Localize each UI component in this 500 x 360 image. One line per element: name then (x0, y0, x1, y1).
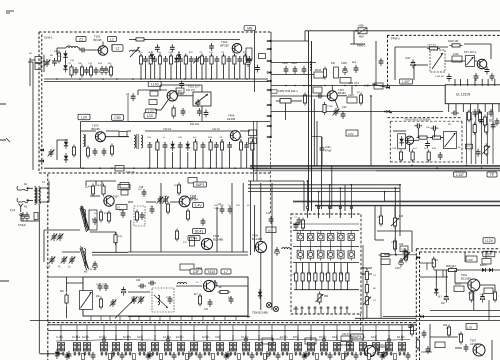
ic cell row1 c5 (338, 231, 344, 243)
capacitor C121 (178, 56, 183, 79)
diode D19 (170, 141, 174, 168)
resistor R221 (60, 291, 68, 306)
terminal arrow (271,49) (267, 47, 272, 50)
ic cell row2 c2 (307, 249, 313, 261)
dashed box PPW-1 left (387, 35, 389, 88)
svg-text:L1: L1 (110, 37, 114, 41)
rect F104 (452, 51, 477, 62)
switch lower contacts S25 (373, 353, 379, 355)
switch drop x246 (245, 325, 247, 341)
resistor R101 (54, 51, 61, 64)
switch drop x272 (271, 325, 273, 341)
arrester rect (34, 213, 38, 220)
value label row2 x210.6 (208, 137, 213, 139)
bottom fringe cap x220 (224, 352, 229, 360)
value label row1 x141 (139, 52, 144, 54)
IC bottom pin x470.6 (470, 104, 472, 112)
left mark y281 (0, 280, 9, 282)
trimmer block dec (444, 132, 457, 149)
label T504 (470, 339, 478, 346)
rect 9P4 (149, 100, 157, 105)
value label osc168 (166, 297, 170, 299)
switch lower contacts S18 (282, 353, 288, 355)
label 2.2V rect (346, 130, 358, 136)
resistor R122 (86, 146, 89, 159)
capacitor C153 (490, 73, 495, 81)
vertical x253.5 (253, 121, 255, 181)
switch S11 (190, 335, 197, 356)
switch drop x350 (349, 325, 351, 341)
rect L28a (249, 130, 257, 136)
wire x367 stubs (366, 268, 368, 318)
capacitor C160 (451, 111, 459, 116)
svg-text:100µ: 100µ (214, 208, 220, 210)
switch drop x207 (206, 325, 208, 341)
switch S4 (99, 335, 108, 356)
capacitor C190 (266, 213, 273, 224)
wire bus x271 (270, 32, 272, 138)
value label dec450 (448, 124, 452, 126)
switch drop x311 (310, 325, 312, 341)
svg-text:AF195: AF195 (227, 117, 236, 121)
switch lower contacts S15 (243, 353, 249, 355)
left mark y140 (0, 138, 10, 142)
wire y131 row2 (145, 130, 250, 132)
wire y201 (293, 200, 500, 202)
label decoder type (404, 120, 431, 122)
resistor R202 (393, 239, 404, 252)
wire am rf (44, 181, 116, 262)
resistor R136 (194, 139, 197, 168)
resistor R215 (410, 324, 413, 337)
value label row2 x165 (163, 137, 166, 139)
varcap C234 (138, 296, 145, 304)
bottom fringe res x363 (368, 354, 371, 360)
wire y188.2 (248, 187, 400, 189)
capacitor C173 (93, 217, 98, 225)
resistor rect R151 (331, 62, 339, 78)
rect bottom mid 1 (262, 338, 273, 344)
bottom fringe res x128 (133, 354, 136, 360)
junction dot (180,168) (179, 167, 181, 169)
wire y318 (30, 318, 416, 320)
switch drop x298 (297, 325, 299, 341)
ic resistor r5 (320, 263, 323, 290)
svg-text:BC148B: BC148B (252, 237, 262, 241)
switch drop x363 (362, 325, 364, 341)
junction dot (103,79) (102, 78, 104, 80)
capacitor C145 (282, 62, 288, 74)
svg-text:BF195: BF195 (94, 38, 103, 42)
label T409b (252, 234, 262, 242)
capacitor C137 (201, 142, 206, 168)
right col cap d (491, 122, 496, 130)
wire bottom left y353.8 (39, 353, 62, 355)
resistor R173 (107, 211, 110, 224)
resistor R212 (446, 266, 459, 272)
terminal arrow (271,126) (267, 124, 272, 127)
capacitor C161 (473, 109, 482, 117)
resistor R122 (200, 54, 203, 80)
junction dot (112,168) (111, 167, 113, 169)
resistor R119 (184, 54, 187, 80)
value label aud410 (408, 327, 411, 329)
value label aud452 (450, 267, 454, 269)
switch S13 (215, 335, 224, 356)
svg-text:10µ: 10µ (441, 303, 446, 305)
bottom fringe res x104 (109, 354, 112, 360)
capacitor C200 (403, 248, 408, 256)
ferrite rod hatch upper (80, 206, 89, 232)
value label am106-214 (104, 213, 109, 215)
elco C211 (480, 294, 484, 303)
capacitor C185 (201, 218, 206, 226)
rect F102 (115, 166, 135, 175)
bottom fringe cap x324 (328, 352, 333, 360)
audio bottom components (416, 330, 432, 354)
mixer wires extra (128, 95, 193, 122)
switch lower contacts S8 (152, 353, 158, 355)
wire y39.4 (129, 38, 240, 40)
svg-text:R2P: R2P (485, 252, 492, 256)
corner x400 (399, 185, 401, 236)
svg-text:C2m: C2m (215, 336, 220, 339)
capacitor C118 (163, 56, 168, 79)
label L4 (42, 181, 45, 184)
wire y74.5 (271, 74, 314, 76)
value label row2 x180.2 (178, 137, 183, 139)
label T107 (113, 196, 127, 210)
IC UL1231N body (445, 85, 500, 104)
switch lower contacts S7 (139, 353, 145, 355)
diode D105 (64, 139, 68, 149)
ic pin drop 307 (306, 181, 308, 206)
resistor R174 (89, 210, 125, 230)
resistor R200 (379, 214, 382, 227)
value label row1 x191.2 (189, 52, 194, 54)
capacitor C149 (352, 61, 358, 73)
wire x33 antenna (28, 62, 33, 170)
ic cell row2 c1 (297, 249, 303, 261)
switch lower contacts S10 (178, 353, 184, 355)
svg-text:7SH-91-403 E 92-20(92)4: 7SH-91-403 E 92-20(92)4 (404, 120, 431, 122)
value label aud393 (391, 242, 395, 244)
value label l70 (68, 63, 72, 65)
resistor R230 (194, 294, 202, 307)
diode D106 (64, 153, 68, 163)
value label dec468 (466, 146, 471, 148)
svg-text:BF195: BF195 (221, 43, 230, 47)
switch S2 (72, 335, 81, 356)
right col cap b (479, 117, 484, 125)
switch S5 (112, 335, 119, 356)
input terminal 1 (40, 148, 44, 151)
filter rect MF10 (314, 69, 324, 78)
oscillator block (193, 85, 211, 121)
label box L103 (148, 82, 161, 87)
resistor R182 (186, 209, 189, 222)
capacitor C162 (470, 109, 493, 122)
svg-text:4700µF: 4700µF (18, 225, 26, 227)
svg-text:T409: T409 (252, 234, 259, 238)
switch S16 (255, 335, 262, 356)
svg-text:UL 1231N: UL 1231N (456, 93, 471, 97)
terminal arrow (271,81) (267, 79, 272, 82)
coil L45 (178, 283, 187, 285)
resistor R123 (110, 144, 113, 157)
wire stage1 (57, 42, 112, 56)
rect C3F (190, 269, 202, 274)
diag link osc (115, 287, 134, 319)
varcap C174 (51, 233, 58, 241)
switch pin label x116 (112, 344, 114, 352)
resistor R164 (427, 150, 430, 163)
diode D211 (489, 268, 493, 272)
capacitor C111 (170, 44, 175, 52)
resistor chain R241 (365, 282, 376, 295)
wire x371 drop (370, 95, 372, 165)
value label l90 (88, 63, 93, 65)
labels mid band (214, 205, 250, 210)
value label ic310-275 (309, 274, 312, 276)
switch drop x389 (388, 325, 390, 341)
capacitor C122 (181, 108, 186, 116)
antenna input network (29, 53, 50, 86)
rect SUP1 (194, 182, 207, 187)
svg-text:145V: 145V (364, 85, 370, 88)
AM input hook 1 (17, 186, 28, 191)
transistor T107 (104, 196, 114, 206)
capacitor C112 (209, 43, 214, 51)
resistor R124 (210, 54, 213, 80)
tuner block KSY dashed (430, 50, 445, 72)
label T408 BF194 (190, 194, 198, 201)
value label am230-206 (228, 205, 231, 207)
IC top pin x475 (474, 79, 476, 86)
section dash x360.5 (360, 314, 362, 332)
label PW6-2 (357, 44, 366, 48)
wire y205 (315, 204, 500, 206)
rect audio aux (435, 342, 445, 348)
ic resistor r1 (295, 263, 298, 290)
svg-text:BA147: BA147 (480, 264, 488, 267)
terminal arrow (271,61) (267, 59, 272, 62)
resistor R154 (357, 92, 363, 106)
rail emphasis y201 (293, 201, 500, 203)
AM terminal dot 2 (24, 199, 29, 208)
ic pin drop 340.3 (339, 188, 341, 209)
value label am96-214 (94, 213, 97, 215)
bus y330.6 (48, 330, 416, 332)
trimmer C177 (58, 256, 67, 269)
wire y181 (248, 181, 304, 211)
capacitor C163 (414, 123, 422, 128)
svg-text:42-Om: 42-Om (82, 336, 89, 339)
junction dot (345,85.5) (344, 85, 346, 87)
rect L40 (193, 203, 204, 208)
svg-text:R2 10n: R2 10n (397, 336, 405, 339)
bottom fringe res x311 (316, 354, 319, 360)
wire y171 (376, 170, 500, 172)
entry arrow audio (416, 256, 421, 259)
rail x331.8 (331, 166, 333, 209)
resistor R150 (323, 67, 326, 80)
capacitor C183 (218, 204, 224, 214)
junction dot (133,79) (132, 78, 134, 80)
value label l80 (78, 63, 82, 65)
ic bottom wire (294, 289, 359, 291)
svg-text:AF194: AF194 (470, 342, 478, 346)
switch S8 (151, 335, 158, 356)
dashed enclosure FM tuner top edge (39, 31, 272, 33)
label 4700 (18, 225, 26, 227)
svg-text:R40: R40 (399, 216, 404, 218)
value label aud482 (480, 294, 485, 296)
capacitor C231 (148, 281, 156, 286)
ic cell row2 c3 (318, 249, 324, 261)
IC bottom pin x499 (498, 104, 500, 112)
value label osc198 (196, 282, 199, 284)
value label row2 x252.4 (250, 137, 254, 139)
bus wire y168 (44, 167, 268, 169)
value label osc133 (131, 297, 135, 299)
wire y184.8 (248, 184, 400, 186)
bottom fringe cap x298 (302, 352, 307, 360)
bottom fringe res x389 (394, 354, 397, 360)
value label ic298-251 (297, 250, 300, 252)
terminal arrow (271,41) (267, 39, 272, 42)
svg-text:C10? 4/2: C10? 4/2 (427, 45, 437, 47)
switch drop x376 (375, 325, 377, 341)
terminal arrow (271,137) (267, 135, 272, 138)
trimmer R201 (391, 216, 404, 229)
resistor R131 (156, 139, 159, 168)
capacitor C120 (126, 93, 136, 101)
label F105 TCM (278, 89, 298, 93)
ic resistor r9 (346, 263, 349, 290)
svg-text:F40 10?: F40 10? (186, 89, 195, 92)
svg-text:SC41: SC41 (195, 229, 204, 233)
switch pin label x233 (229, 344, 231, 352)
bottom fringe cap x272 (276, 352, 281, 360)
resistor R120 (72, 145, 75, 158)
resistor R160 (467, 110, 470, 123)
wire y30.8 top right (305, 31, 500, 41)
label T508 (252, 312, 268, 315)
resistor R105 (109, 65, 112, 78)
switch S25 (371, 335, 380, 356)
resistor R104 (89, 65, 92, 78)
capacitor C230 (136, 280, 146, 288)
value label osc230 (228, 297, 232, 299)
value label am100-186 (98, 185, 103, 187)
svg-text:C42 47: C42 47 (342, 334, 350, 336)
ic resistor r2 (301, 263, 304, 290)
svg-text:C40: C40 (342, 106, 347, 109)
svg-text:40m: 40m (332, 336, 337, 339)
diode D210 (480, 264, 488, 272)
capacitor C130 (147, 142, 152, 168)
capacitor C134 (247, 56, 252, 79)
ic internal wires (293, 224, 359, 263)
svg-text:MW: MW (359, 35, 364, 39)
switch drop x285 (284, 325, 286, 341)
capacitor C150 (447, 74, 452, 82)
rect S101 (374, 83, 383, 89)
switch drop x337 (336, 325, 338, 341)
rail x314.3 (313, 99, 315, 166)
svg-text:T508 BC148B: T508 BC148B (252, 312, 268, 315)
slider link line (56, 338, 410, 342)
rect R211 (482, 259, 491, 265)
dashed box decoder bottom (390, 161, 462, 163)
dashed box PPW-1 top (387, 34, 500, 36)
value label aud436 (434, 260, 439, 262)
capacitor C110 (155, 44, 160, 52)
wire y41 (271, 40, 309, 42)
bottom left diode (47, 349, 59, 359)
value label row2 x195.4 (193, 137, 197, 139)
connector label MB (244, 26, 256, 31)
switch drop x142 (141, 325, 143, 341)
rect bottom mid 2 (305, 338, 316, 344)
capacitor C143 (244, 142, 249, 168)
wire row2 (57, 131, 131, 160)
varcap C175 (57, 233, 64, 241)
elco C107 (104, 66, 108, 75)
elco C149b (405, 58, 445, 78)
svg-text:C50: C50 (114, 116, 120, 120)
ic pin nodes (307, 180, 353, 192)
svg-text:TP: TP (490, 173, 495, 177)
IC top pin x494.8 (494, 79, 496, 86)
label C10 1n4 (163, 123, 220, 131)
svg-text:R49: R49 (443, 325, 448, 327)
junction dot (160,79) (159, 78, 161, 80)
value label row2 x241 (239, 137, 244, 139)
rail emphasis x308.6 (308, 31, 310, 211)
switch lower contacts S9 (165, 353, 171, 355)
junction dot (211,79) (210, 78, 212, 80)
rect SUP4 (351, 334, 364, 339)
value label am176-186 (174, 185, 178, 187)
value label ic342-275 (341, 274, 344, 276)
input terminal 2 (40, 159, 44, 162)
wire ps (375, 206, 412, 252)
label box C50 (112, 115, 124, 121)
label T501 BC158A (461, 273, 471, 280)
transistor T105 (230, 131, 240, 141)
svg-text:MB: MB (247, 26, 253, 30)
bottom small caps (67, 351, 387, 359)
junction dot (304,85.5) (303, 85, 305, 87)
switch S21 (319, 335, 328, 356)
bottom fringe res x233 (238, 354, 241, 360)
dashed filter box F (134, 206, 145, 226)
ferrite rod hatch lower (80, 247, 89, 270)
transistor T504 (473, 344, 485, 356)
capacitor C172 (118, 185, 130, 190)
diag wire pw1 (372, 84, 390, 88)
value label dec434 (432, 148, 437, 150)
capacitor C237 (229, 296, 234, 304)
value label dec394 (392, 148, 397, 150)
resistor R168h (430, 136, 443, 139)
switch lower contacts S2 (74, 353, 80, 355)
capacitor C184 (228, 206, 233, 214)
svg-text:C10 1/4: C10 1/4 (163, 128, 172, 131)
svg-text:C12: C12 (266, 213, 271, 215)
